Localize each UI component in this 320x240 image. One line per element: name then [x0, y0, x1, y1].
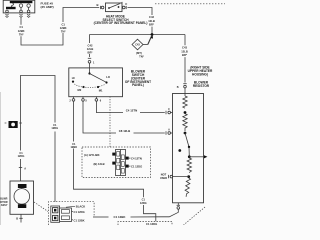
- ganged switch dotted link: [155, 3, 225, 5]
- wire M1 pin to resistor tap 1 (12TN): [96, 101, 123, 112]
- svg-text:12DG: 12DG: [51, 126, 58, 130]
- svg-text:C4 12TN: C4 12TN: [131, 156, 142, 160]
- blower switch label: [125, 70, 151, 88]
- blower switch position labels: [72, 75, 110, 93]
- inline connector icon on motor wire: [5, 121, 22, 128]
- svg-text:C1 12BK: C1 12BK: [114, 215, 127, 219]
- svg-text:C43: C43: [182, 46, 187, 50]
- blower resistor label: [193, 80, 210, 87]
- svg-text:C43: C43: [135, 44, 140, 47]
- svg-text:(MT): (MT): [136, 51, 142, 55]
- svg-text:B: B: [16, 218, 18, 221]
- svg-text:(B) 12LB: (B) 12LB: [94, 162, 105, 166]
- svg-text:C1: C1: [19, 151, 23, 155]
- svg-text:C8 12LB: C8 12LB: [119, 129, 131, 133]
- svg-text:C: C: [168, 108, 170, 111]
- wire label C43 12LB BR*: [177, 46, 188, 89]
- svg-text:C42: C42: [88, 44, 93, 48]
- svg-text:12LB: 12LB: [181, 49, 188, 53]
- svg-text:12LB: 12LB: [87, 47, 94, 51]
- svg-text:C1: C1: [19, 25, 23, 29]
- svg-text:A: A: [24, 167, 26, 170]
- blower motor M1: [10, 168, 34, 223]
- svg-text:(25 AMP): (25 AMP): [41, 5, 54, 9]
- wire bus to blower resistor: [184, 35, 186, 46]
- svg-text:M1: M1: [99, 89, 103, 93]
- svg-text:PANEL): PANEL): [132, 83, 144, 87]
- svg-text:C1: C1: [142, 198, 146, 202]
- svg-text:ASSY: ASSY: [1, 204, 8, 207]
- connector inset C2 (bottom, dashed): [49, 202, 95, 225]
- svg-text:12BK: 12BK: [70, 145, 77, 149]
- resistor tap 3 not used: [169, 175, 189, 178]
- svg-text:C1 12DG: C1 12DG: [131, 164, 142, 168]
- main feed bus wire: [90, 34, 186, 36]
- svg-text:RESISTOR: RESISTOR: [193, 84, 210, 88]
- svg-text:HI: HI: [72, 76, 75, 80]
- svg-text:C4 12TN: C4 12TN: [126, 109, 138, 113]
- dashed pointer resistor to inset C3: [184, 207, 206, 225]
- wire pin2 long drop to motor connector: [73, 101, 75, 141]
- svg-text:C1: C1: [61, 22, 65, 26]
- svg-text:USED: USED: [160, 176, 167, 180]
- wire label C42 12LB BR* (left drop): [87, 44, 95, 65]
- wire bus to blower switch: [89, 35, 91, 44]
- svg-text:12DG: 12DG: [140, 201, 147, 205]
- svg-text:C42: C42: [149, 15, 154, 19]
- svg-text:12LB: 12LB: [148, 19, 155, 23]
- svg-text:M2: M2: [78, 88, 82, 92]
- svg-text:(A) 12YL/BK: (A) 12YL/BK: [84, 153, 100, 157]
- blower resistor R1: [173, 94, 208, 203]
- wire M2 pin to resistor tap 2 (12LB): [83, 101, 116, 133]
- svg-text:HOUSING): HOUSING): [192, 72, 208, 76]
- scan edge artifact: [0, 92, 1, 225]
- wire label C42 12LB BR*: [148, 15, 155, 26]
- motor label: [0, 197, 8, 207]
- junction node: [151, 33, 154, 36]
- connector inset C3 (bottom right, dashed): [118, 222, 172, 226]
- wire label C1 12BK TN* (right): [60, 22, 67, 33]
- svg-text:C1 12DG: C1 12DG: [146, 222, 157, 225]
- wire fuse to heat mode switch: [20, 18, 22, 25]
- svg-text:C1: C1: [53, 123, 57, 127]
- svg-text:B: B: [177, 86, 179, 89]
- blower switch S2: [69, 68, 123, 97]
- fuse label: [41, 2, 54, 10]
- svg-text:(CENTER OF INSTRUMENT PANEL): (CENTER OF INSTRUMENT PANEL): [94, 21, 148, 25]
- svg-text:12DG: 12DG: [18, 154, 25, 158]
- wire label C1 12DG: [140, 198, 147, 205]
- heater housing label: [188, 66, 213, 77]
- dashed pointer motor to connector inset: [34, 202, 48, 212]
- diamond label (MT): [136, 51, 145, 59]
- wire label C1 12DG (motor drop): [18, 151, 25, 158]
- svg-text:BLACK: BLACK: [76, 204, 85, 208]
- svg-text:12BK: 12BK: [60, 26, 67, 30]
- wire label C1 12BK: [70, 142, 77, 149]
- connector inset C1 (center, dashed): [82, 147, 151, 178]
- svg-text:C1 12BK: C1 12BK: [74, 218, 85, 222]
- fuse block F1: [3, 0, 35, 13]
- heat mode select switch S1: [100, 2, 126, 12]
- splice diamond C43 (MT): [132, 35, 153, 49]
- svg-text:A: A: [168, 128, 170, 131]
- svg-text:C: C: [125, 2, 127, 6]
- svg-text:LO: LO: [106, 75, 110, 79]
- blower switch bottom pins: [72, 96, 98, 101]
- dashed link switch to connector inset: [109, 96, 111, 147]
- wire C to junction: [128, 8, 153, 16]
- svg-text:B: B: [97, 3, 99, 7]
- resistor bottom pin to ground wire: [162, 203, 180, 217]
- svg-text:NOT: NOT: [161, 172, 167, 176]
- motor harness wire (up and over): [20, 159, 22, 181]
- heat mode switch label: [94, 14, 148, 25]
- wire label C1 12DG (x55): [51, 123, 58, 130]
- connector arrows below fuse block: [5, 14, 30, 17]
- ground wire C1 12BK: [93, 216, 109, 218]
- svg-text:C1 12DG: C1 12DG: [74, 210, 85, 214]
- svg-text:12BK: 12BK: [18, 29, 25, 33]
- svg-text:C1: C1: [72, 142, 76, 146]
- wire label C1 12BK TN* (left): [18, 25, 25, 36]
